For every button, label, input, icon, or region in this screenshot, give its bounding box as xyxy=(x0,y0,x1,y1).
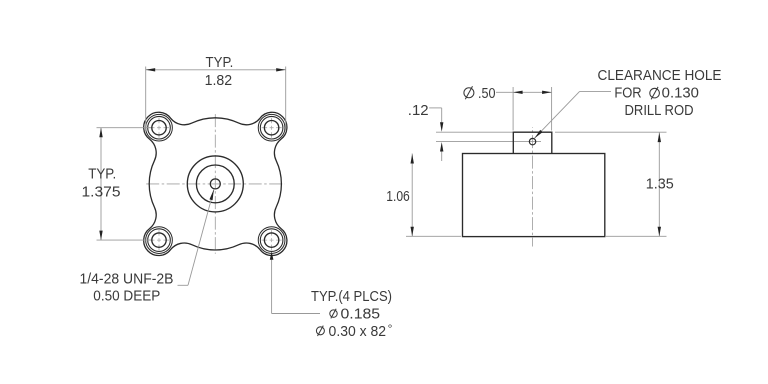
svg-text:1.82: 1.82 xyxy=(205,73,233,89)
svg-text:0.50 DEEP: 0.50 DEEP xyxy=(93,288,160,304)
svg-text:.12: .12 xyxy=(408,103,429,119)
svg-text:TYP.: TYP. xyxy=(88,167,116,183)
svg-text:0.130: 0.130 xyxy=(662,86,699,102)
svg-text:.50: .50 xyxy=(478,86,496,102)
svg-text:0.30 x 82: 0.30 x 82 xyxy=(329,324,387,340)
svg-text:1.375: 1.375 xyxy=(82,185,121,201)
svg-text:°: ° xyxy=(388,321,393,335)
svg-text:FOR: FOR xyxy=(614,86,641,102)
svg-text:1/4-28 UNF-2B: 1/4-28 UNF-2B xyxy=(80,271,174,287)
svg-text:DRILL ROD: DRILL ROD xyxy=(625,103,694,119)
svg-text:TYP.(4 PLCS): TYP.(4 PLCS) xyxy=(311,289,392,305)
svg-text:CLEARANCE HOLE: CLEARANCE HOLE xyxy=(598,68,722,84)
svg-text:0.185: 0.185 xyxy=(341,306,381,322)
svg-text:1.35: 1.35 xyxy=(646,176,674,192)
svg-text:TYP.: TYP. xyxy=(206,55,234,71)
svg-text:1.06: 1.06 xyxy=(386,189,410,205)
